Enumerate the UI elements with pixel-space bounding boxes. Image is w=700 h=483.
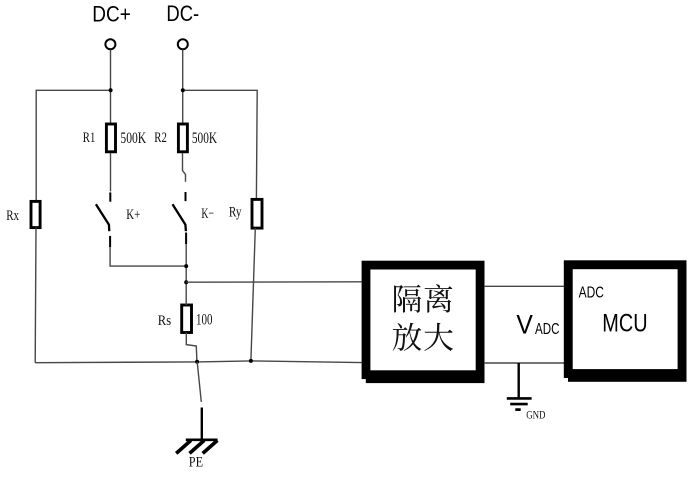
junction dot Rs bottom xyxy=(195,360,199,364)
svg-text:R2: R2 xyxy=(154,130,167,146)
svg-text:Rs: Rs xyxy=(158,313,171,329)
GND bar 3 xyxy=(515,408,520,411)
wire DC- vertical drop xyxy=(182,50,184,123)
DC+ terminal circle xyxy=(105,39,115,49)
svg-text:Rx: Rx xyxy=(6,208,19,224)
svg-text:K−: K− xyxy=(201,206,214,222)
wire sense tap to isolation amp xyxy=(186,281,361,283)
svg-text:ADC: ADC xyxy=(535,321,560,338)
MCU U2 box xyxy=(568,265,682,374)
svg-text:PE: PE xyxy=(189,454,203,470)
op-amp U1 text line 2 (Chinese: fang da) xyxy=(393,323,453,351)
wire below R2 with jog xyxy=(183,153,186,182)
wire K- bottom down to Rs xyxy=(185,244,187,305)
svg-text:DC+: DC+ xyxy=(92,2,131,27)
GND bar 2 xyxy=(510,403,528,406)
PE ground hatch 1 xyxy=(176,440,191,453)
switch K+ blade xyxy=(96,204,109,231)
PE ground hatch 3 xyxy=(203,440,218,453)
junction dot K wires xyxy=(184,264,188,268)
junction dot DC- rail xyxy=(181,88,185,92)
PE ground stem xyxy=(201,408,203,440)
svg-text:500K: 500K xyxy=(120,130,146,147)
wire to PE ground (slanted) xyxy=(197,362,201,402)
resistor R2 body xyxy=(178,124,187,152)
GND stem xyxy=(518,363,520,398)
op-amp U1 text line 1 (Chinese: ge li) xyxy=(394,284,452,312)
svg-text:K+: K+ xyxy=(126,207,140,223)
MCU U2 box shadow xyxy=(568,373,687,382)
resistor R1 body xyxy=(106,124,115,152)
switch K+ top contact dash xyxy=(109,192,111,201)
switch K- top contact dash xyxy=(185,192,187,201)
wire DC+ vertical drop xyxy=(110,50,112,123)
svg-text:MCU: MCU xyxy=(602,310,647,338)
junction dot DC+ rail xyxy=(109,88,113,92)
wire top-right rail xyxy=(183,90,257,198)
wire top-left rail xyxy=(36,90,110,200)
svg-text:Ry: Ry xyxy=(229,205,242,221)
resistor Rx body xyxy=(31,201,40,227)
DC- terminal circle xyxy=(178,39,188,49)
switch K- bottom contact dash xyxy=(185,233,187,245)
wire K+ bottom to junction xyxy=(110,247,186,266)
junction dot sense tap xyxy=(184,280,188,284)
op-amp U1 isolation amplifier box shadow xyxy=(366,375,485,384)
wire isolation amp output top xyxy=(484,285,564,287)
junction dot Ry bottom xyxy=(249,359,253,363)
svg-text:R1: R1 xyxy=(83,130,96,146)
svg-text:GND: GND xyxy=(526,408,546,422)
svg-text:100: 100 xyxy=(196,311,213,328)
svg-text:ADC: ADC xyxy=(579,285,604,302)
wire below R1 xyxy=(110,153,112,191)
svg-text:V: V xyxy=(516,309,533,339)
wire Rx lower vertical xyxy=(34,228,37,363)
wire isolation amp output bottom / analog ground xyxy=(484,362,564,364)
op-amp U1 isolation amplifier box xyxy=(366,265,480,375)
PE ground bar xyxy=(186,438,218,441)
PE ground hatch 2 xyxy=(190,440,205,453)
wire Ry lower vertical xyxy=(251,228,255,361)
switch K+ bottom contact dash xyxy=(109,236,111,247)
resistor Ry body xyxy=(252,199,262,228)
GND bar 1 xyxy=(507,397,532,400)
svg-text:500K: 500K xyxy=(192,130,218,147)
switch K- blade xyxy=(173,204,186,231)
wire bottom rail xyxy=(35,361,361,363)
svg-text:DC-: DC- xyxy=(166,1,199,26)
resistor Rs body xyxy=(182,305,192,333)
wire below Rs jog to bottom rail xyxy=(186,333,197,362)
